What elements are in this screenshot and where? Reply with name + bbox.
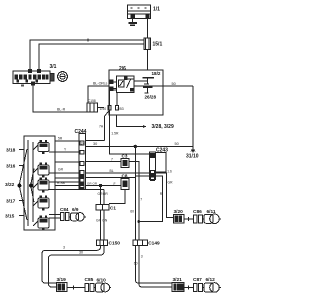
svg-text:60: 60: [134, 262, 138, 266]
wire bus outer: [30, 40, 144, 71]
fuse C8: [121, 179, 129, 190]
fuse 15/1: [144, 38, 151, 50]
wire F to fuse C8: [86, 185, 122, 187]
motor 6/11: [202, 214, 221, 224]
key symbol: [58, 72, 68, 82]
switch 3/21: [172, 283, 184, 292]
switch pack outer box: [24, 136, 55, 230]
wire to C86: [184, 218, 194, 220]
wire to C243 lower: [86, 176, 150, 177]
relay unit: [117, 76, 135, 93]
junction diamonds: [17, 183, 33, 189]
wire to C85: [67, 287, 85, 289]
C244 pins: [80, 141, 84, 189]
internal wire to verticals: [110, 90, 118, 106]
bus tick: [87, 38, 89, 41]
switch unit 4: [33, 198, 49, 208]
svg-text:31/10: 31/10: [186, 154, 199, 160]
pack to C244 wires: [49, 141, 79, 189]
svg-text:BL-R: BL-R: [57, 108, 66, 112]
suppressor 18/2: [143, 78, 155, 85]
svg-text:6/12: 6/12: [206, 277, 216, 283]
svg-text:6/10: 6/10: [97, 278, 107, 284]
pack diagonals: [20, 149, 35, 220]
switch unit 3: [33, 180, 49, 190]
svg-text:C84: C84: [60, 207, 69, 212]
connector C243: [150, 152, 167, 180]
battery 1/1: [128, 5, 151, 19]
svg-text:GR: GR: [168, 181, 174, 185]
svg-text:C244: C244: [75, 129, 87, 135]
svg-text:50: 50: [175, 142, 179, 146]
wire to C87: [184, 287, 194, 289]
motor 6/10: [94, 283, 111, 292]
svg-text:C1: C1: [110, 206, 116, 211]
svg-text:GR: GR: [58, 168, 64, 172]
switch 3/20: [174, 215, 185, 224]
C243 pins: [150, 154, 154, 181]
wire BL-OR up to relay: [88, 86, 109, 103]
switch 3/19: [57, 283, 68, 292]
connector C85: [85, 284, 94, 292]
wires below C1: [101, 210, 105, 240]
svg-text:C149: C149: [148, 241, 160, 247]
motor 6/9: [69, 213, 86, 221]
svg-text:26/28: 26/28: [145, 95, 157, 100]
connector C1: [96, 205, 109, 211]
wire 7 to fuse C3: [86, 161, 122, 163]
switch unit 1: [33, 143, 49, 152]
connector C150: [96, 240, 107, 246]
svg-text:3: 3: [141, 255, 143, 259]
svg-text:C85: C85: [85, 277, 94, 283]
svg-text:F: F: [114, 182, 116, 186]
tiny mark under switch: [21, 85, 24, 87]
pack to C84 wires: [49, 215, 61, 219]
internal connector marks: [108, 106, 119, 111]
svg-text:3: 3: [63, 246, 65, 250]
wire 30-50 horizontal: [86, 145, 194, 147]
svg-text:2/6: 2/6: [119, 66, 126, 72]
switch unit 5: [33, 218, 49, 228]
svg-text:C3: C3: [122, 154, 128, 159]
svg-text:C86: C86: [193, 209, 202, 215]
wire 3/28 arrow: [117, 115, 146, 128]
svg-text:7A: 7A: [99, 125, 104, 129]
svg-text:OR: OR: [103, 192, 109, 196]
connector C244: [79, 134, 86, 190]
svg-text:15: 15: [104, 82, 108, 86]
svg-text:3/16: 3/16: [6, 164, 16, 170]
suppressor 26/28: [143, 87, 153, 93]
svg-text:1.5R: 1.5R: [111, 132, 119, 136]
svg-text:1/1: 1/1: [153, 6, 160, 12]
connector C149: [133, 240, 148, 246]
wire relay to node: [134, 80, 148, 82]
svg-text:3/21: 3/21: [173, 277, 183, 283]
svg-text:BL-OR: BL-OR: [93, 82, 104, 86]
vertical v4: [103, 189, 105, 204]
fuse C3: [121, 159, 129, 168]
junction dot: [134, 145, 137, 148]
svg-text:R-SB: R-SB: [57, 181, 66, 185]
ignition switch 3/1: [13, 70, 54, 85]
relay outer box 2/6: [109, 70, 163, 115]
svg-text:1/50: 1/50: [100, 107, 107, 111]
svg-text:C243: C243: [156, 148, 168, 154]
svg-text:6/11: 6/11: [207, 209, 216, 215]
svg-text:3/15: 3/15: [5, 214, 15, 220]
svg-text:18/2: 18/2: [152, 71, 161, 76]
wire from fuse C3 right: [129, 162, 139, 222]
verticals below C149: [135, 246, 172, 284]
wire bus inner: [39, 44, 144, 71]
ground 31/10: [191, 146, 195, 153]
svg-text:BL: BL: [110, 169, 114, 173]
connector box on BL-R: [87, 103, 104, 112]
connector C87: [194, 284, 203, 292]
connector C84: [61, 213, 70, 221]
verticals to C149: [134, 146, 136, 240]
svg-text:1.6: 1.6: [167, 170, 172, 174]
vertical v1 from relay: [86, 110, 110, 141]
svg-text:C158: C158: [88, 99, 96, 103]
svg-text:15/1: 15/1: [153, 42, 163, 48]
svg-text:5R: 5R: [58, 137, 63, 141]
svg-text:3/22: 3/22: [5, 182, 15, 188]
svg-text:60: 60: [130, 210, 134, 214]
junction dot on F wire: [99, 184, 102, 187]
svg-text:C87: C87: [193, 277, 202, 283]
svg-text:30: 30: [79, 251, 83, 255]
svg-text:50: 50: [172, 82, 176, 86]
switch unit 2: [33, 165, 49, 175]
svg-text:30: 30: [93, 142, 97, 146]
svg-text:6/9: 6/9: [72, 207, 79, 212]
wire from fuse C8 down: [109, 190, 125, 204]
pack unit pins: [40, 140, 48, 231]
svg-text:3/1: 3/1: [50, 64, 57, 70]
svg-text:ON: ON: [102, 219, 108, 223]
junction dot: [137, 220, 140, 223]
svg-text:7: 7: [140, 197, 142, 201]
svg-text:3/20: 3/20: [174, 209, 184, 215]
wire fuse to relay box: [147, 50, 149, 71]
svg-text:24: 24: [81, 142, 85, 146]
pack rails: [28, 140, 33, 226]
wire BL to C243: [86, 172, 150, 174]
wire battery to fuse: [147, 19, 149, 39]
svg-text:GR: GR: [96, 219, 102, 223]
svg-text:C150: C150: [109, 241, 121, 247]
relay box left pins: [109, 80, 116, 90]
svg-text:3/28, 3/29: 3/28, 3/29: [152, 124, 174, 130]
svg-text:3/18: 3/18: [6, 148, 16, 154]
motor 6/12: [202, 283, 221, 293]
wire BL-R from switch: [33, 85, 87, 112]
svg-text:3/17: 3/17: [6, 199, 16, 205]
vertical v2 from relay: [110, 110, 150, 154]
connector C86: [194, 215, 203, 223]
C243 right wires: [156, 173, 174, 218]
ground below battery left terminal: [129, 19, 137, 26]
bottom bus wires: [42, 246, 101, 284]
svg-text:3/19: 3/19: [57, 277, 67, 283]
svg-text:7: 7: [111, 158, 113, 162]
svg-text:1/53: 1/53: [117, 107, 124, 111]
wire 50 out of relay: [134, 86, 193, 146]
vertical v3: [100, 186, 102, 205]
wire strip to v4: [86, 188, 105, 190]
